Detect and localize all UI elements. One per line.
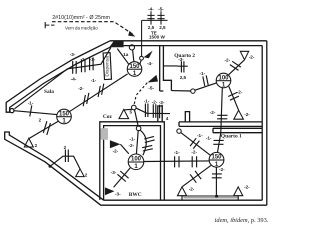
junction doorbell point — [10, 109, 14, 113]
svg-text:-1-: -1- — [197, 133, 203, 138]
svg-text:-2-: -2- — [219, 167, 225, 172]
wall stub corridor — [158, 106, 162, 122]
svg-text:-2-: -2- — [152, 99, 158, 104]
wall upper diagonal — [6, 41, 113, 112]
svg-text:-2-: -2- — [189, 187, 195, 192]
wall door stub quarto2 — [185, 112, 189, 122]
conductor ticks hall circuit 1 — [175, 156, 179, 167]
svg-text:-5-: -5- — [158, 6, 164, 11]
wire sala lamp to outlet low — [29, 121, 59, 138]
svg-text:-1-: -1- — [174, 150, 180, 155]
wall quarto1 top — [213, 128, 262, 132]
svg-text:-1-: -1- — [199, 71, 205, 76]
svg-text:2,5: 2,5 — [180, 75, 187, 80]
conductor ticks sala wall drop — [65, 150, 68, 163]
svg-text:Vem da medição: Vem da medição — [65, 25, 98, 30]
wire riser connector — [142, 20, 168, 56]
wall bottom — [101, 200, 267, 205]
svg-text:-2-: -2- — [210, 110, 216, 115]
wire feeder dashed leader — [52, 22, 133, 34]
svg-text:-2-: -2- — [244, 112, 250, 117]
wire corridor junction to outlet coz — [124, 108, 132, 111]
svg-text:150: 150 — [129, 64, 140, 70]
conductor ticks quarto2 circuit 2a — [230, 61, 241, 70]
lamp center 150W circuit 1 — [127, 62, 142, 77]
svg-text:4: 4 — [166, 116, 169, 121]
wall jog wire quarto2 — [171, 90, 190, 92]
arrow circuit 4 to board — [144, 51, 153, 59]
svg-text:-2-: -2- — [244, 185, 250, 190]
conductor ticks BWC circuit 1 — [144, 136, 154, 142]
wire feeder arrow glyph — [45, 22, 54, 28]
junction wall anchor — [49, 165, 52, 168]
arrow circuit 5 to board — [148, 75, 159, 83]
junction quarto1 corner — [177, 129, 181, 133]
svg-text:-1-: -1- — [91, 78, 97, 83]
wire quarto1 lamp to outlet left — [182, 165, 211, 186]
conductor ticks quarto2 circuit 1 — [203, 75, 208, 86]
riser quarto2 circuit 3 — [163, 61, 187, 72]
wall BWC room — [100, 122, 165, 200]
svg-text:Sala: Sala — [44, 89, 54, 95]
door shade BWC — [101, 128, 108, 140]
conductor ticks quarto1 circuit 2a — [190, 171, 201, 183]
svg-text:-3-: -3- — [70, 52, 76, 57]
wire BWC lamp to quarto1 lamp — [144, 160, 209, 163]
conductor ticks circuit 2 — [83, 84, 104, 107]
conductor ticks BWC circuit 3 — [117, 171, 128, 182]
conductor ticks sala branch — [43, 121, 50, 135]
svg-text:150: 150 — [59, 111, 70, 117]
svg-text:-2-: -2- — [191, 150, 197, 155]
wall top horizontal — [110, 41, 267, 46]
cabinet Dispensa — [103, 53, 111, 80]
svg-text:-2-: -2- — [113, 149, 119, 154]
svg-text:-2-: -2- — [78, 86, 84, 91]
arrow BWC circuit 3 — [105, 187, 115, 195]
svg-text:-4-: -4- — [148, 6, 154, 11]
junction BWC wall — [136, 126, 141, 131]
svg-text:Coz: Coz — [103, 114, 113, 120]
outlet quarto1 right — [234, 187, 243, 200]
outlet sala 1 — [24, 138, 33, 147]
svg-text:150: 150 — [211, 155, 222, 161]
svg-text:Dispensa: Dispensa — [105, 56, 111, 77]
svg-text:100: 100 — [218, 75, 229, 81]
lamp sala 150W circuit 1 — [57, 109, 72, 124]
riser circuit 4 — [147, 11, 154, 24]
wire BWC lamp to arrow 3 — [114, 168, 131, 187]
junction corridor — [132, 105, 137, 110]
svg-text:-1-: -1- — [90, 57, 96, 62]
svg-text:-1-: -1- — [129, 136, 135, 141]
conductor ticks quarto1 down — [212, 174, 222, 178]
svg-text:-2-: -2- — [128, 143, 134, 148]
svg-text:-1-: -1- — [28, 100, 34, 105]
svg-text:2: 2 — [64, 145, 67, 150]
svg-text:2#10(10)mm² - Ø 25mm: 2#10(10)mm² - Ø 25mm — [52, 15, 110, 21]
wall quarto2 left — [160, 46, 172, 91]
distribution board QD — [110, 41, 124, 48]
svg-text:-4-: -4- — [71, 77, 77, 82]
conductor ticks vertical circuit 2 — [217, 115, 227, 119]
svg-text:2,5: 2,5 — [159, 25, 166, 30]
conductor ticks hall circuit 2 — [192, 156, 196, 167]
junction arrow node — [140, 56, 144, 60]
wire BWC junction to lamp arc — [140, 130, 146, 155]
conductor tick cluster on upper wall — [73, 57, 93, 73]
wire quarto2 lamp to outlet right — [229, 86, 239, 110]
outlet quarto1 left — [177, 187, 186, 200]
conductor ticks BWC circuit 2 — [142, 145, 153, 151]
outlet quarto2 right — [234, 110, 244, 119]
wire quarto2 lamp down to quarto1 — [218, 88, 223, 152]
svg-text:2: 2 — [35, 143, 38, 148]
conductor ticks vertical circuit 1 — [213, 140, 223, 144]
svg-text:-2-: -2- — [237, 90, 243, 95]
conductor ticks quarto2 circuit 2b — [228, 92, 239, 100]
wire dashed lamp to corridor junction — [134, 83, 147, 105]
wire center lamp to arrow node — [140, 60, 141, 64]
wire center lamp to board — [117, 49, 129, 65]
wire board to sala wall run — [15, 48, 111, 109]
junction quarto2 — [191, 89, 195, 93]
wall right — [262, 41, 267, 205]
svg-text:-2-: -2- — [224, 57, 230, 62]
wire quarto1 bottom run — [182, 196, 238, 198]
lamp BWC 100W circuit 1 — [128, 154, 144, 170]
svg-text:-3-: -3- — [159, 100, 165, 105]
wire arrow to BWC lamp — [120, 144, 128, 154]
junction button on wall — [129, 45, 134, 62]
wall quarto2 bottom — [179, 122, 262, 127]
lamp quarto2 100W circuit 1 — [216, 73, 231, 88]
wire junction to quarto2 lamp — [195, 83, 216, 90]
svg-text:-2-: -2- — [249, 54, 255, 59]
conductor ticks corridor 1 2 3 — [145, 104, 162, 119]
wire node to sala lamp — [14, 111, 57, 115]
svg-text:2: 2 — [85, 172, 88, 177]
riser circuit 5 — [157, 11, 164, 24]
svg-text:-4-: -4- — [147, 61, 153, 66]
svg-text:5: 5 — [130, 110, 133, 115]
svg-text:100: 100 — [131, 157, 142, 163]
arrow BWC circuit 2 — [110, 140, 121, 148]
svg-text:-3-: -3- — [111, 170, 117, 175]
wire corridor junction to BWC — [135, 110, 139, 127]
wire BWC junction to lamp straight — [136, 131, 138, 154]
outlet quarto2 high — [240, 51, 248, 60]
svg-text:-3-: -3- — [115, 191, 121, 196]
wire corridor run — [136, 108, 170, 113]
junction quarto1 bottom — [215, 195, 218, 198]
svg-text:idem, ibidem, p. 393.: idem, ibidem, p. 393. — [215, 217, 269, 224]
outlet coz circuit 5 — [119, 109, 129, 118]
lamp quarto1 150W circuit 1 — [209, 152, 224, 167]
wall lower-left diagonal — [5, 132, 104, 205]
svg-text:-3-: -3- — [178, 57, 184, 62]
outlet sala 2 — [76, 169, 85, 177]
svg-text:BWC: BWC — [129, 192, 142, 198]
svg-text:2: 2 — [39, 118, 42, 123]
wire sala lamp to center lamp — [69, 74, 127, 112]
wire wall anchor to outlet — [50, 156, 80, 169]
svg-text:-1-: -1- — [206, 135, 212, 140]
svg-text:-5-: -5- — [148, 85, 154, 90]
wire junction to quarto1 lamp — [181, 133, 211, 156]
conductor ticks circuit 1 sala — [30, 105, 32, 116]
svg-text:1a: 1a — [123, 52, 129, 57]
conductor ticks quarto1 circuit 1 — [190, 138, 199, 148]
svg-text:-2-: -2- — [80, 57, 86, 62]
wire quarto2 lamp to outlet top — [229, 60, 244, 74]
wire quarto1 lamp down — [215, 167, 217, 196]
svg-text:1500 W: 1500 W — [149, 35, 165, 40]
node feeder arrowhead — [128, 31, 135, 37]
svg-text:2,5: 2,5 — [148, 25, 155, 30]
svg-text:Quarto 1: Quarto 1 — [221, 134, 242, 140]
svg-text:-1-: -1- — [144, 99, 150, 104]
